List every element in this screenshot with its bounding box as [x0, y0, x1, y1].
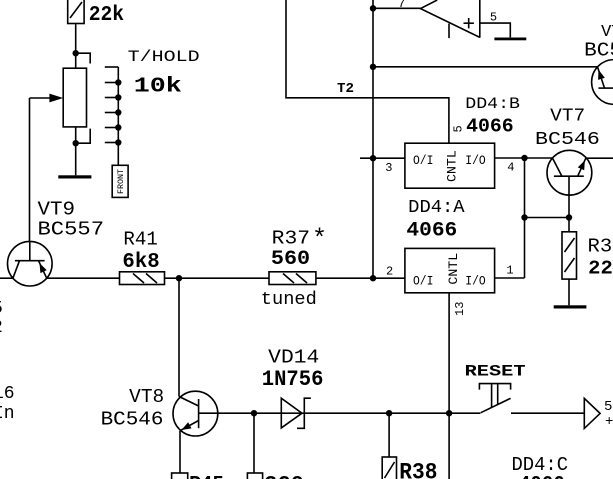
op-amp pin 5 wire [480, 23, 511, 37]
wire pin1 [495, 277, 525, 279]
T2 net wire [286, 0, 449, 143]
svg-text:VT9: VT9 [38, 199, 76, 221]
wire VT8 base to VD14 [218, 412, 481, 414]
ground (pot) [58, 175, 91, 178]
buffer triangle (right edge) [584, 398, 600, 428]
svg-text:CNTL: CNTL [445, 150, 460, 182]
resistor R39 (right edge) [562, 218, 577, 306]
svg-text:*: * [312, 225, 327, 254]
svg-text:In: In [0, 404, 15, 424]
wire pin4 junction down [524, 158, 526, 278]
wire 22k to pot [75, 24, 77, 69]
svg-text:1N756: 1N756 [262, 367, 324, 392]
svg-text:FRONT: FRONT [116, 169, 126, 194]
resistor R38 (cut) [382, 457, 396, 479]
transistor VT7 [547, 150, 592, 217]
node: VT8 base / VD14 junction [251, 410, 257, 416]
node: R41/R37/VT8 collector junction [176, 275, 182, 281]
svg-text:tuned: tuned [261, 290, 317, 310]
svg-text:BC557: BC557 [38, 218, 105, 240]
pot wiper arrow [30, 94, 64, 103]
svg-text:3: 3 [385, 161, 392, 175]
wire VT9 collector to R41 [47, 277, 120, 279]
connector column (front panel contacts) [105, 67, 122, 165]
wire R37 to DD4:A pin2 [316, 277, 405, 279]
svg-text:DD4:A: DD4:A [408, 198, 465, 218]
node: op-amp output junction [370, 5, 376, 11]
svg-text:2: 2 [386, 265, 393, 279]
resistor R45 (bottom, cut) [172, 473, 188, 479]
svg-text:T/HOLD: T/HOLD [128, 48, 200, 66]
svg-text:4066: 4066 [519, 474, 565, 479]
node: VT7 base rail right junction [566, 214, 572, 220]
vertical bus wire x=373 [372, 0, 374, 278]
transistor VT8 [173, 391, 218, 436]
wire pot bottom [75, 127, 77, 175]
switch DD4:B [405, 143, 495, 188]
svg-text:+: + [605, 414, 613, 430]
svg-text:260: 260 [264, 474, 304, 479]
svg-text:220: 220 [588, 257, 613, 279]
svg-text:O/I: O/I [413, 274, 433, 289]
node: R38 junction [386, 410, 392, 416]
svg-text:4066: 4066 [466, 115, 514, 137]
svg-text:VT7: VT7 [550, 107, 585, 127]
node: DD4:A pin 2 junction [370, 275, 376, 281]
node: DD4:B pin 4 junction [521, 155, 527, 161]
svg-text:I/O: I/O [465, 274, 486, 289]
wire junction down to R52 [253, 413, 255, 473]
svg-text:VD14: VD14 [268, 347, 319, 369]
svg-text:R37: R37 [272, 227, 310, 249]
svg-text:4066: 4066 [406, 220, 457, 243]
ground (op-amp pin5) [494, 38, 526, 41]
resistor R37 [269, 272, 316, 285]
zener diode VD14 [281, 398, 311, 428]
node: pot bottom junction [73, 140, 79, 146]
svg-text:R41: R41 [123, 229, 157, 251]
svg-text:BC546: BC546 [535, 130, 600, 150]
node: pin13/RESET junction [446, 410, 452, 416]
svg-text:13: 13 [453, 302, 467, 316]
svg-text:7: 7 [398, 0, 405, 11]
switch DD4:A [405, 248, 495, 292]
transistor VT9 [8, 241, 53, 286]
node: rail to VT6 junction [370, 64, 376, 70]
svg-text:5: 5 [490, 10, 497, 24]
svg-text:5: 5 [0, 299, 3, 319]
rail to VT6 [373, 66, 598, 68]
pushbutton RESET [479, 384, 510, 413]
svg-text:O/I: O/I [413, 153, 433, 168]
wire VT9 emitter left [0, 277, 13, 279]
svg-text:RESET: RESET [465, 362, 526, 380]
svg-text:10k: 10k [134, 75, 182, 98]
wire junction down to VT8 [178, 278, 180, 396]
FRONT box [112, 165, 128, 197]
resistor R41 [120, 272, 165, 285]
wire pin3 [360, 157, 405, 159]
svg-text:R39: R39 [588, 236, 613, 258]
wire R41 to R37 [165, 277, 270, 279]
svg-text:R45: R45 [189, 474, 224, 479]
pot top hook [76, 53, 91, 63]
wire pin13 down [448, 293, 450, 479]
svg-text:CNTL: CNTL [446, 253, 461, 285]
svg-text:22k: 22k [89, 4, 124, 27]
svg-text:R38: R38 [399, 460, 437, 479]
wire VT8 emitter down [179, 431, 181, 473]
svg-text:6k8: 6k8 [122, 251, 159, 274]
svg-text:2: 2 [0, 318, 3, 338]
svg-text:T2: T2 [337, 81, 354, 97]
pot bottom hook [76, 129, 91, 144]
svg-text:4: 4 [507, 161, 514, 175]
potentiometer body [63, 68, 86, 127]
svg-text:VT8: VT8 [129, 386, 164, 408]
wire VT7 emitter right [586, 157, 613, 159]
svg-text:5: 5 [452, 125, 466, 132]
svg-text:1: 1 [506, 264, 513, 278]
transistor VT6 (top right, cut) [592, 60, 613, 105]
node: DD4:B pin 3 junction [370, 155, 376, 161]
node: VT7 base rail left junction [521, 214, 527, 220]
wire wiper to VT9 base [29, 98, 31, 241]
svg-text:16: 16 [0, 384, 15, 404]
svg-text:560: 560 [271, 248, 310, 271]
svg-text:BC546: BC546 [584, 40, 613, 62]
svg-text:DD4:B: DD4:B [465, 95, 520, 113]
svg-text:5: 5 [604, 399, 612, 415]
svg-text:BC546: BC546 [101, 409, 164, 431]
op-amp (left-pointing, cut at top) [373, 0, 480, 38]
rail VT7 base [525, 217, 570, 219]
resistor 22k (vertical, cut at top edge) [68, 0, 84, 24]
wire pin4 [495, 157, 553, 159]
svg-text:I/O: I/O [465, 153, 486, 168]
wire RESET right [511, 412, 584, 414]
node: pot top junction [73, 50, 79, 56]
ground (R39) [554, 305, 587, 308]
wire R38 down [388, 413, 390, 457]
resistor R52 (bottom, cut) [247, 473, 262, 479]
